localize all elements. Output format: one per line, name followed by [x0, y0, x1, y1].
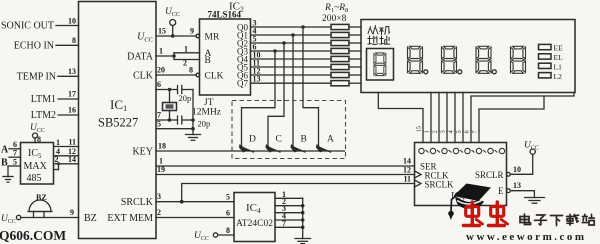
- wire Q4 net with resistor R5: [251, 51, 362, 62]
- svg-text:UCC: UCC: [1, 214, 16, 225]
- svg-text:20p: 20p: [198, 119, 211, 129]
- svg-text:14: 14: [403, 157, 411, 166]
- seven-segment digit 2: [442, 46, 462, 74]
- svg-text:L1: L1: [554, 62, 563, 71]
- key matrix dashed box: [232, 101, 346, 159]
- wire display to IC5 pin6: [471, 93, 574, 132]
- svg-text:Q606.COM: Q606.COM: [0, 228, 66, 243]
- svg-text:EE: EE: [554, 44, 564, 53]
- svg-text:13: 13: [513, 181, 521, 190]
- svg-text:A: A: [327, 135, 334, 145]
- svg-text:D: D: [249, 135, 256, 145]
- wire KEY rail IC1 pin18: [156, 142, 345, 152]
- svg-text:10: 10: [68, 17, 76, 26]
- svg-text:Q7: Q7: [237, 79, 248, 89]
- wire Q6 net with resistor R7: [251, 67, 362, 78]
- svg-text:SRCLK: SRCLK: [121, 197, 154, 208]
- key C: [266, 135, 282, 153]
- svg-text:11: 11: [68, 138, 76, 147]
- svg-text:13: 13: [68, 67, 76, 76]
- wire IC5 SRCLR pin10 to Ucc: [507, 154, 533, 176]
- svg-text:2: 2: [432, 130, 439, 133]
- wire IC1 pin15 to IC2 MR pin9: [156, 27, 200, 38]
- wire IC1 pin1 DATA to IC2 A,B: [156, 45, 200, 68]
- wire display to IC5 pin4: [454, 93, 456, 132]
- wire IC4 pin4: [275, 212, 305, 222]
- watermark graduation cap: [448, 184, 491, 221]
- svg-text:JT: JT: [204, 98, 214, 108]
- svg-text:IC1: IC1: [110, 97, 127, 113]
- svg-text:2: 2: [183, 59, 187, 68]
- svg-text:10: 10: [513, 165, 521, 174]
- transceiver IC5 MAX485: [21, 143, 54, 185]
- svg-text:2: 2: [55, 155, 59, 164]
- svg-text:MR: MR: [205, 33, 220, 43]
- svg-text:485: 485: [27, 173, 42, 184]
- wire IC4 pin7: [275, 219, 305, 229]
- svg-text:1: 1: [184, 45, 188, 54]
- svg-text:L2: L2: [554, 72, 563, 81]
- svg-text:SB5227: SB5227: [98, 116, 138, 130]
- svg-text:www.eeworm.com: www.eeworm.com: [466, 231, 587, 243]
- wire IC1 pin5 to ground rail: [156, 120, 195, 131]
- wire Q1 to key B: [292, 35, 294, 147]
- svg-text:8: 8: [226, 226, 230, 235]
- wire display to IC5 pin7: [479, 96, 544, 131]
- svg-text:13: 13: [253, 75, 261, 84]
- svg-text:A: A: [1, 145, 9, 156]
- wire IC1 pin20 CLK to IC2 CLK pin8: [156, 66, 200, 77]
- wire MAX485 pins2+3 to IC1 pin14: [54, 155, 79, 170]
- wire display to IC5 pin15: [378, 93, 423, 132]
- IC5 74HC595 latch driver: [415, 143, 507, 206]
- crystal JT 12MHz: [156, 80, 221, 120]
- svg-text:8: 8: [72, 36, 76, 45]
- svg-text:IC4: IC4: [246, 202, 261, 215]
- indicator L2: [539, 72, 563, 81]
- IC4 AT24C02 eeprom: [234, 193, 275, 242]
- indicator L1: [539, 62, 563, 71]
- wire display to IC5 pin5: [462, 93, 464, 132]
- wire Q3 to key D: [242, 51, 276, 147]
- node ECHO IN (pin 8): [14, 36, 79, 52]
- svg-text:B: B: [1, 158, 8, 169]
- svg-text:6: 6: [157, 80, 161, 89]
- wire IC1 pin2 EXT MEM to IC4 pin6: [156, 208, 234, 218]
- seven-segment digit 1: [408, 46, 428, 74]
- svg-text:SONIC OUT: SONIC OUT: [1, 21, 54, 32]
- ground IC5 E: [525, 198, 545, 204]
- wire IC4 pin1: [275, 190, 303, 199]
- node B (RS485 B, pin 7): [1, 149, 21, 169]
- key B: [291, 135, 307, 153]
- power Ucc top (IC1 pin15 / IC2 MR): [165, 7, 180, 38]
- svg-text:3: 3: [157, 192, 161, 201]
- ground IC4 address pins: [295, 198, 311, 243]
- IC2 74LS164 shift register: [200, 1, 251, 96]
- key D: [239, 135, 256, 153]
- svg-text:ECHO IN: ECHO IN: [14, 41, 54, 52]
- wire display to IC5 pin2: [438, 93, 440, 132]
- power Ucc for MAX485 pin 8: [30, 123, 45, 144]
- wire Q3 net with resistor R4: [251, 43, 362, 54]
- svg-text:SRCLK: SRCLK: [425, 180, 455, 190]
- label resistor array R1~R8 200x8: [322, 3, 348, 24]
- svg-text:UCC: UCC: [137, 32, 153, 44]
- svg-text:UCC: UCC: [165, 7, 180, 18]
- svg-text:IC5: IC5: [28, 148, 42, 160]
- svg-text:B: B: [205, 56, 211, 66]
- svg-text:20p: 20p: [179, 93, 192, 103]
- svg-text:7: 7: [13, 149, 17, 158]
- svg-text:16: 16: [68, 106, 76, 115]
- indicator EE: [539, 44, 564, 53]
- wire IC4 pin3: [275, 204, 305, 214]
- svg-text:C: C: [276, 135, 282, 145]
- svg-text:9: 9: [70, 208, 74, 217]
- IC1 SB5227 main controller: [79, 2, 157, 239]
- ground crystal rail: [186, 90, 201, 141]
- svg-text:200×8: 200×8: [322, 14, 347, 24]
- svg-text:5: 5: [456, 130, 463, 133]
- svg-text:7: 7: [157, 111, 161, 120]
- node TEMP IN (pin 13): [17, 67, 79, 83]
- svg-text:8: 8: [189, 66, 193, 75]
- svg-text:E: E: [498, 186, 504, 196]
- watermark dianzi xiazai zhan text: [520, 214, 594, 226]
- wire MAX485 pin1 to IC1 pin11: [54, 138, 79, 148]
- wire IC1 pin7 to crystal bottom: [156, 111, 177, 122]
- seven-segment digit 3: [476, 46, 496, 74]
- svg-text:12MHz: 12MHz: [192, 108, 221, 118]
- label slave address (congji dizhi): [368, 26, 390, 45]
- svg-text:EL: EL: [554, 53, 564, 62]
- wire Q7 net with resistor R8: [251, 75, 362, 86]
- svg-text:20: 20: [157, 66, 165, 75]
- svg-text:B: B: [301, 135, 307, 145]
- svg-text:CLK: CLK: [205, 72, 224, 82]
- wire IC5 E pin13 to ground: [507, 181, 535, 197]
- svg-text:5: 5: [226, 193, 230, 202]
- wire IC4 pin2: [275, 197, 305, 207]
- wire Q0 to key A: [303, 27, 319, 147]
- wire Q0 net with resistor R1: [251, 19, 362, 30]
- svg-text:2: 2: [157, 208, 161, 217]
- node LTM2 (pin 16): [31, 106, 79, 122]
- power Ucc for SRCLR: [524, 141, 539, 155]
- svg-text:LTM1: LTM1: [31, 94, 56, 105]
- node LTM1 (pin 17): [31, 90, 79, 106]
- svg-text:R1~R8: R1~R8: [324, 3, 348, 14]
- svg-text:14: 14: [68, 155, 76, 164]
- svg-text:4: 4: [448, 130, 455, 134]
- power Ucc for buzzer: [1, 214, 21, 225]
- svg-text:AT24C02: AT24C02: [236, 219, 273, 229]
- svg-text:5: 5: [13, 158, 17, 167]
- wire Q2 to key C: [268, 43, 284, 147]
- wire IC1 pin3 SRCLK to IC4 pin5 and IC5 pin11: [156, 175, 415, 204]
- wire Q2 net with resistor R3: [251, 35, 362, 46]
- seven-segment slave address digit: [374, 53, 386, 76]
- svg-text:17: 17: [68, 90, 76, 99]
- watermark chongchong red characters: [464, 202, 508, 226]
- svg-text:1: 1: [56, 138, 60, 147]
- wire buzzer to IC1 pin9 BZ: [21, 208, 79, 218]
- svg-text:LTM2: LTM2: [31, 110, 56, 121]
- svg-text:SRCLR: SRCLR: [475, 170, 504, 180]
- svg-text:6: 6: [464, 130, 471, 134]
- svg-text:15: 15: [416, 126, 423, 133]
- svg-text:CLK: CLK: [133, 71, 154, 82]
- svg-text:12: 12: [403, 166, 411, 175]
- svg-text:18: 18: [158, 142, 166, 151]
- node A (RS485 A, pin 6): [1, 140, 21, 156]
- power Ucc for IC4 pin8: [194, 226, 234, 242]
- svg-text:6: 6: [226, 209, 230, 218]
- svg-text:7: 7: [282, 219, 286, 228]
- seven-segment digit 4: [511, 46, 526, 73]
- node SONIC OUT (pin 10): [1, 17, 79, 32]
- svg-text:15: 15: [158, 27, 166, 36]
- capacitor 20p bottom: [178, 116, 211, 129]
- svg-text:KEY: KEY: [132, 147, 153, 158]
- svg-text:11: 11: [403, 175, 411, 184]
- svg-text:BZ: BZ: [84, 213, 97, 224]
- svg-text:DATA: DATA: [127, 52, 154, 63]
- wire display to IC5 pin1: [430, 93, 432, 132]
- wire Q5 net with resistor R6: [251, 59, 362, 70]
- buzzer BZ: [28, 193, 52, 218]
- IC5 top pin stubs with numbers: [416, 126, 480, 143]
- svg-text:TEMP IN: TEMP IN: [17, 72, 56, 83]
- svg-text:1: 1: [424, 130, 431, 133]
- svg-text:5: 5: [157, 120, 161, 129]
- indicator EL: [539, 53, 564, 62]
- svg-text:74LS164: 74LS164: [208, 10, 242, 20]
- wire display to IC5 pin3: [446, 93, 448, 132]
- display module box: [361, 20, 575, 93]
- svg-text:1: 1: [159, 47, 163, 56]
- svg-text:19: 19: [157, 165, 165, 174]
- ground MAX485 pin 5: [3, 158, 21, 183]
- svg-text:7: 7: [472, 130, 479, 134]
- svg-text:UCC: UCC: [30, 123, 45, 134]
- svg-text:UCC: UCC: [194, 231, 209, 242]
- key A: [316, 135, 334, 153]
- svg-text:9: 9: [190, 27, 194, 36]
- capacitor 20p top: [178, 86, 194, 104]
- svg-text:EXT MEM: EXT MEM: [107, 213, 153, 224]
- svg-text:3: 3: [440, 130, 447, 133]
- wire IC1 pin19 to IC5 RCLK pin12: [156, 165, 415, 175]
- wire Q1 net with resistor R2: [251, 27, 362, 38]
- wire MAX485 pin4 to IC1 pin12: [54, 147, 79, 156]
- wire IC1 pin1 to IC5 SER pin14: [156, 157, 415, 167]
- slave address digit box: [367, 49, 394, 81]
- svg-text:MAX: MAX: [24, 161, 48, 172]
